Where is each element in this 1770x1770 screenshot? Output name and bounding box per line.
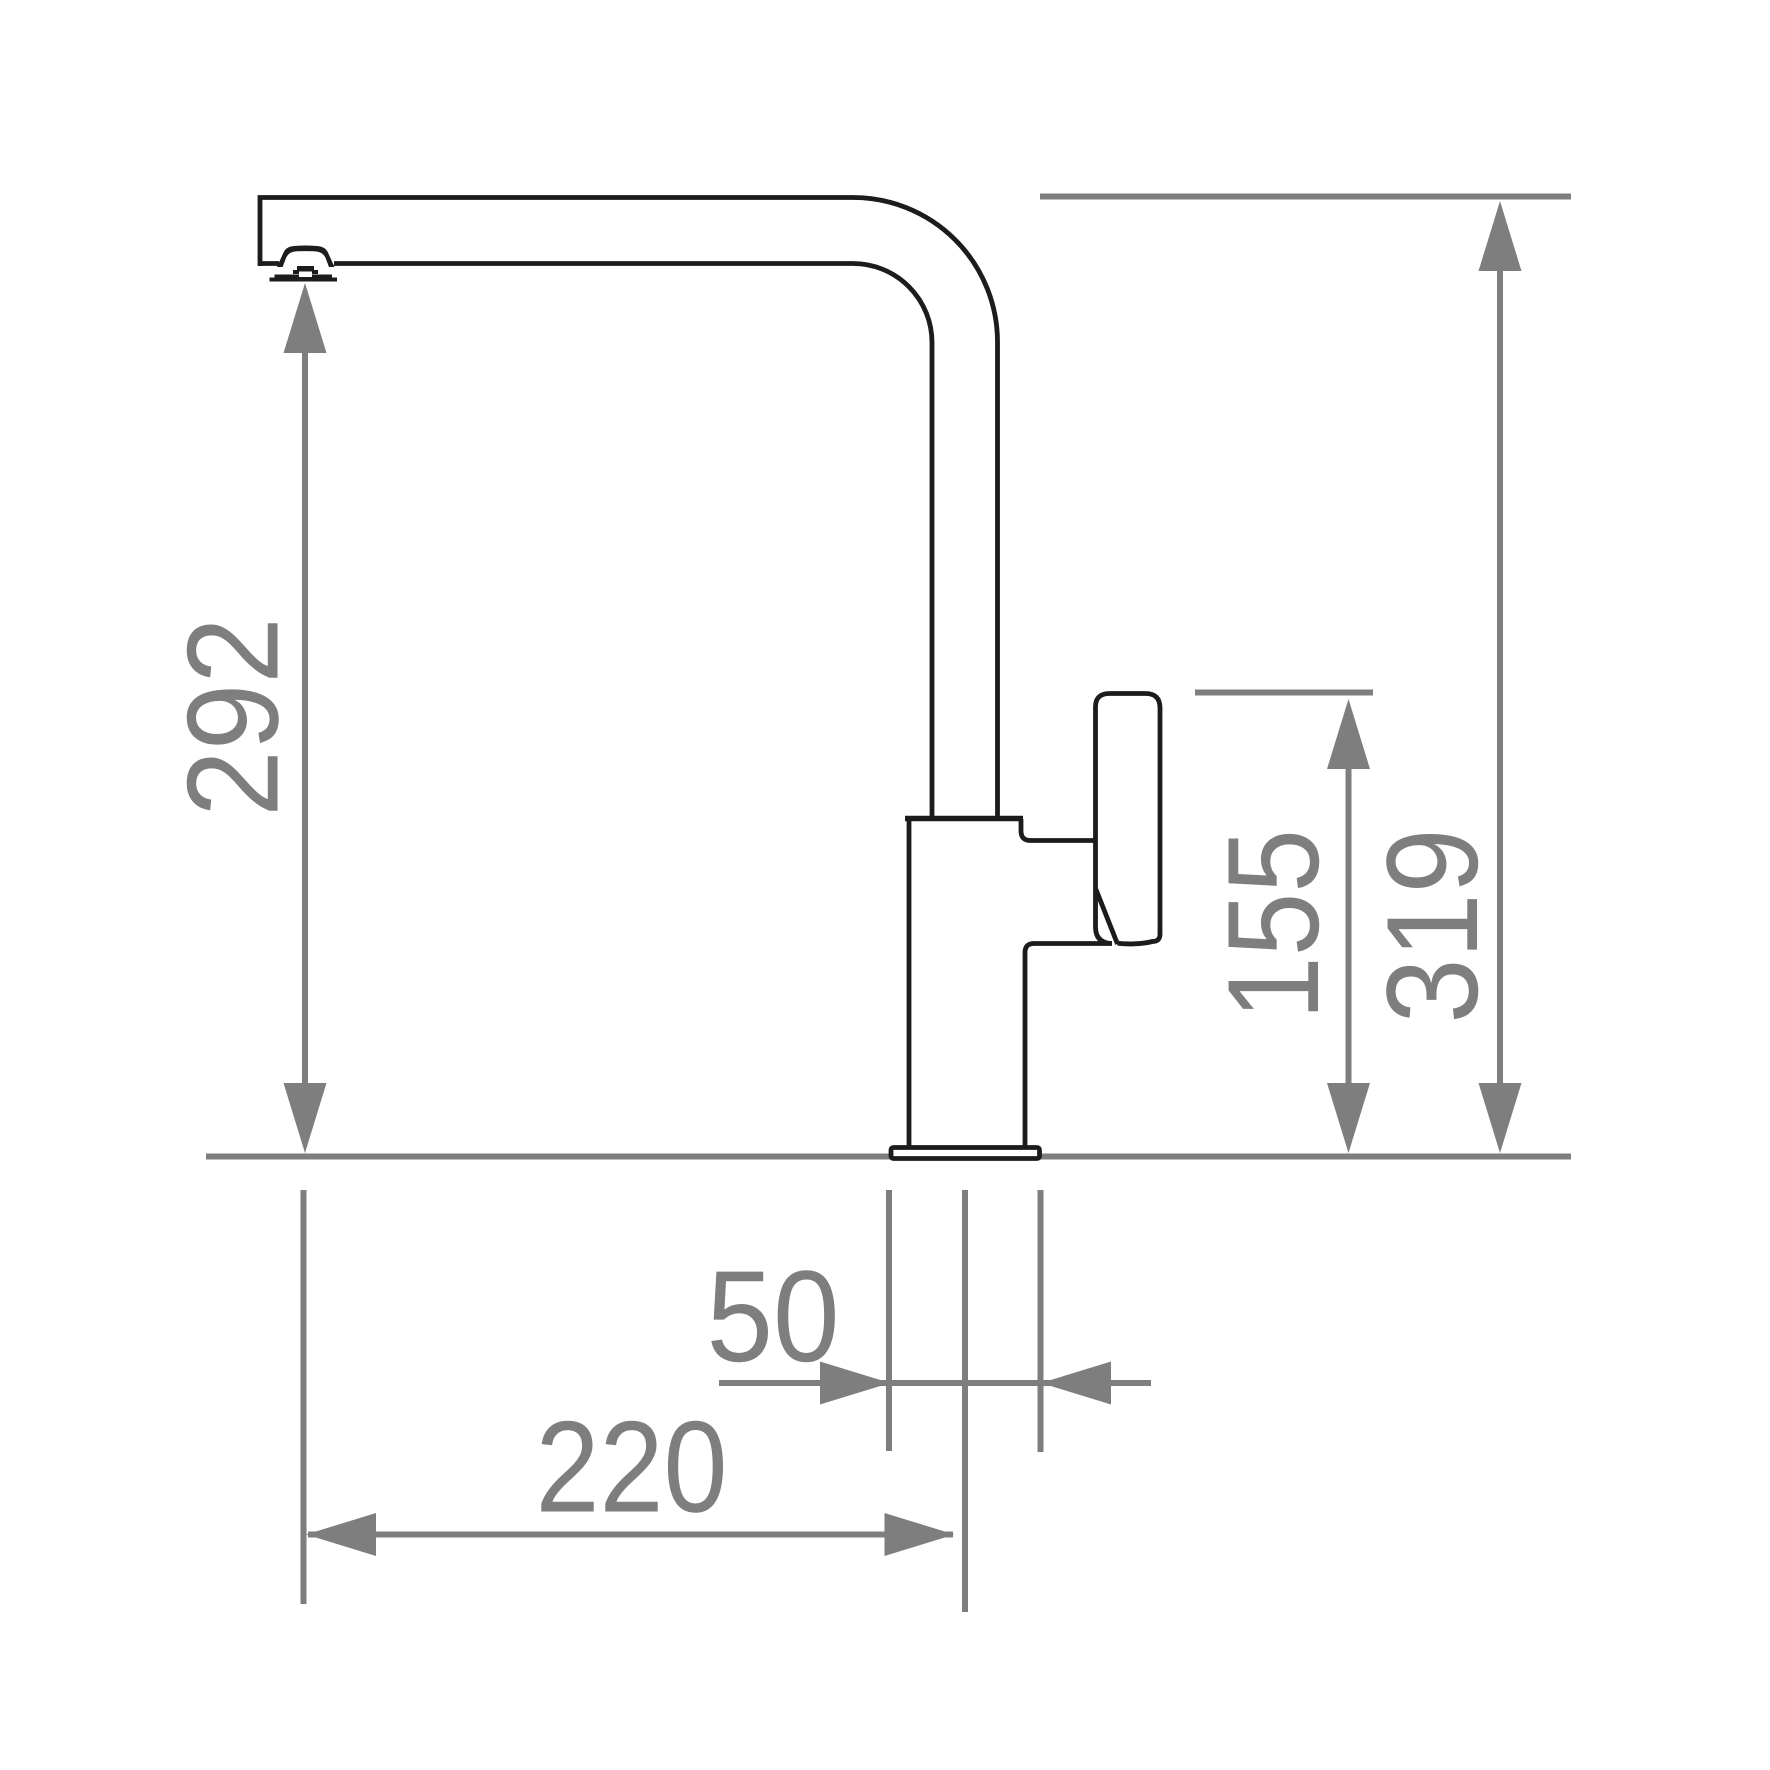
dimension extension line top (overall height datum) <box>1040 194 1571 200</box>
svg-text:155: 155 <box>1200 829 1345 1020</box>
faucet body right edge upper + handle arm top <box>1021 819 1096 841</box>
dimension 292 arrow <box>284 283 327 1153</box>
extension line faucet axis <box>962 1190 968 1612</box>
dimension 50 arrows <box>719 1362 1151 1405</box>
handle underside diagonal <box>1096 890 1118 945</box>
faucet body left edge <box>907 819 912 1146</box>
svg-text:292: 292 <box>161 617 306 817</box>
svg-text:220: 220 <box>536 1395 728 1540</box>
dimension 155 arrow <box>1327 699 1370 1153</box>
dimension extension line handle top (155 datum) <box>1195 690 1373 696</box>
label 319 <box>1360 828 1505 1023</box>
extension line below spout tip <box>301 1190 307 1604</box>
dimension 220 arrow <box>306 1513 955 1556</box>
spout underside stub left of aerator <box>258 261 279 266</box>
faucet spout outer outline <box>260 198 998 820</box>
handle arm bottom + body right edge lower <box>1025 944 1112 1147</box>
faucet spout inner outline <box>334 264 932 820</box>
extension line base left <box>886 1190 892 1451</box>
label 155 <box>1200 829 1345 1020</box>
base plate <box>891 1148 1040 1159</box>
label 50 <box>706 1244 839 1389</box>
aerator (spout outlet) <box>270 245 338 281</box>
label 220 <box>536 1395 728 1540</box>
svg-text:50: 50 <box>706 1244 839 1389</box>
dimension 319 arrow <box>1479 201 1522 1153</box>
label 292 <box>161 617 306 817</box>
handle lever <box>1095 694 1160 944</box>
ground line <box>206 1154 1571 1160</box>
faucet body top edge <box>905 816 1023 822</box>
svg-text:319: 319 <box>1360 828 1505 1023</box>
extension line base right <box>1038 1190 1044 1452</box>
